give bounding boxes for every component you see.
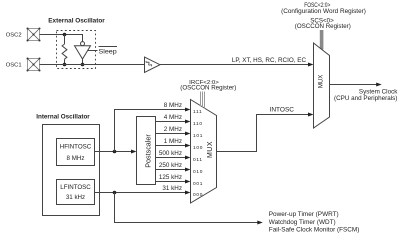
inverter bubble (81, 42, 85, 46)
arrowhead 4 MHz into intosc mux (185, 120, 191, 124)
svg-text:OSC1: OSC1 (6, 63, 22, 69)
svg-text:Fail-Safe Clock Monitor (FSCM): Fail-Safe Clock Monitor (FSCM) (269, 226, 360, 233)
postscaler box (137, 117, 156, 185)
buffer triangle with wave symbol (145, 57, 161, 73)
wire 250 kHz (156, 169, 189, 171)
wire OSC2 to inverter (40, 35, 83, 42)
wire system clock output (330, 84, 380, 86)
junction dot OSC2/resistor (63, 33, 67, 37)
svg-text:8 MHz: 8 MHz (67, 155, 85, 162)
junction dot resistor/OSC1 (63, 63, 67, 67)
IRCF select lines (gray bus) (201, 92, 205, 109)
arrowhead into system mux (external clocks) (308, 63, 314, 67)
system mux body (314, 43, 330, 128)
arrowhead timers (257, 221, 263, 225)
svg-text:31 kHz: 31 kHz (162, 185, 182, 192)
wire LFINTOSC 31 kHz row (95, 192, 189, 194)
junction dot LF drop (113, 191, 117, 195)
arrowhead 2 MHz into intosc mux (185, 132, 191, 136)
svg-text:External Oscillator: External Oscillator (48, 18, 105, 25)
overline Sleep (99, 46, 118, 48)
svg-text:111: 111 (193, 109, 202, 115)
wire HFINTOSC to postscaler (95, 151, 136, 153)
arrowhead into system mux (intosc) (308, 113, 314, 117)
intosc mux body (191, 100, 217, 204)
wire 1 MHz (156, 145, 189, 147)
svg-text:(CPU and Peripherals): (CPU and Peripherals) (334, 95, 397, 102)
svg-text:8 MHz: 8 MHz (164, 102, 182, 109)
arrowhead 125 kHz into intosc mux (185, 180, 191, 184)
svg-text:2 MHz: 2 MHz (164, 126, 182, 133)
svg-text:250 kHz: 250 kHz (159, 162, 182, 169)
svg-text:1 MHz: 1 MHz (164, 138, 182, 145)
arrowhead system clock (376, 83, 382, 87)
svg-text:101: 101 (193, 133, 203, 139)
arrowhead 500 kHz into intosc mux (185, 156, 191, 160)
svg-text:Sleep: Sleep (99, 49, 118, 56)
svg-text:4 MHz: 4 MHz (164, 114, 182, 121)
svg-text:000: 000 (193, 192, 203, 198)
svg-text:001: 001 (193, 181, 203, 187)
svg-text:MUX: MUX (207, 141, 214, 158)
svg-text:100: 100 (193, 145, 203, 151)
svg-text:LFINTOSC: LFINTOSC (60, 184, 91, 191)
svg-text:LP, XT, HS, RC, RCIO, EC: LP, XT, HS, RC, RCIO, EC (232, 57, 307, 64)
wire 2 MHz (156, 133, 189, 135)
arrowhead into postscaler (131, 150, 137, 154)
arrowhead 250 kHz into intosc mux (185, 168, 191, 172)
svg-text:Power-up Timer (PWRT): Power-up Timer (PWRT) (269, 211, 339, 218)
wire riser to 8 MHz row (115, 110, 189, 152)
pin OSC1 (27, 58, 41, 72)
wire 500 kHz (156, 157, 189, 159)
resistor (62, 35, 67, 65)
svg-text:(Configuration Word Register): (Configuration Word Register) (281, 8, 366, 15)
svg-text:500 kHz: 500 kHz (159, 150, 182, 157)
svg-text:(OSCCON Register): (OSCCON Register) (180, 84, 236, 91)
dashed enclosure external oscillator (57, 31, 96, 69)
arrowhead 8 MHz into intosc mux (185, 108, 191, 112)
svg-text:31 kHz: 31 kHz (66, 194, 85, 201)
svg-text:125 kHz: 125 kHz (159, 174, 182, 181)
inverter triangle (75, 46, 91, 59)
wire sleep into inverter (88, 50, 98, 52)
svg-text:INTOSC: INTOSC (270, 106, 295, 113)
svg-text:Postscaler: Postscaler (145, 134, 152, 168)
svg-text:MUX: MUX (318, 75, 325, 89)
arrowhead 31 kHz into intosc mux (185, 191, 191, 195)
select bus into system mux (gray bar) (320, 30, 324, 50)
junction dot HF riser (113, 150, 117, 154)
svg-text:Internal Oscillator: Internal Oscillator (36, 114, 90, 121)
wire buffer to system mux (160, 64, 312, 66)
svg-text:011: 011 (193, 157, 203, 163)
LFINTOSC box (57, 180, 95, 205)
wire LFINTOSC to timers (115, 193, 261, 223)
HFINTOSC box (57, 139, 95, 166)
pin OSC2 (27, 28, 41, 42)
svg-text:HFINTOSC: HFINTOSC (60, 143, 92, 150)
wire 4 MHz (156, 121, 189, 123)
wire 125 kHz (156, 181, 189, 183)
wire intosc mux output to system mux (217, 115, 312, 152)
svg-text:OSC2: OSC2 (6, 33, 22, 39)
arrowhead 1 MHz into intosc mux (185, 144, 191, 148)
svg-text:010: 010 (193, 169, 203, 175)
inverter output stub (82, 59, 84, 65)
internal oscillator outer box (43, 125, 100, 216)
wire OSC1 to buffer (40, 64, 145, 66)
svg-text:110: 110 (193, 121, 203, 127)
junction dot inverter/OSC1 (81, 63, 85, 67)
svg-text:(OSCCON Register): (OSCCON Register) (295, 23, 351, 30)
svg-text:Watchdog Timer (WDT): Watchdog Timer (WDT) (269, 219, 336, 226)
